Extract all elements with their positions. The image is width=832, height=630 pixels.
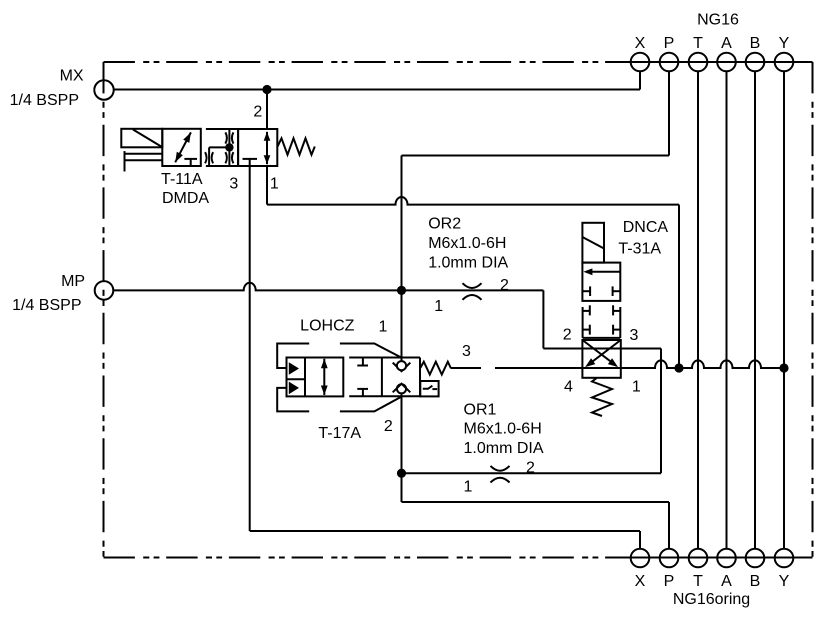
svg-text:2: 2	[563, 327, 572, 344]
wire MP to DNCA port 2	[543, 290, 582, 348]
valve LOHCZ upper poppet	[393, 361, 411, 371]
svg-text:2: 2	[526, 460, 535, 477]
port X (top)	[631, 53, 650, 72]
valve DMDA manual override	[125, 151, 163, 171]
wire DNCA port 1 to port Y line	[621, 360, 784, 368]
valve DMDA spring	[278, 138, 315, 154]
svg-text:A: A	[721, 573, 732, 590]
labels top port letters X P T A B Y	[635, 35, 790, 52]
boundary solid segment through bottom ports	[629, 557, 794, 559]
label DNCA port 3	[630, 327, 639, 344]
wire port Y vertical	[783, 71, 785, 548]
svg-text:1: 1	[632, 378, 641, 395]
wire LOHCZ port 3 to DNCA port 4	[451, 367, 583, 369]
valve DMDA position box with crossed arrow	[162, 129, 201, 166]
label OR2 port 1	[434, 298, 443, 315]
svg-text:NG16: NG16	[697, 12, 739, 29]
valve DMDA T-11A solenoid box	[121, 129, 162, 148]
svg-text:3: 3	[229, 175, 238, 192]
label DNCA	[623, 219, 669, 236]
label MX	[60, 68, 84, 85]
svg-text:NG16oring: NG16oring	[673, 591, 750, 608]
port T (bottom)	[689, 549, 708, 568]
port Y (bottom)	[775, 549, 794, 568]
port A (bottom)	[717, 549, 736, 568]
port MX	[94, 80, 113, 99]
svg-text:MP: MP	[61, 273, 85, 290]
node junction P net / MP line at OR2	[397, 286, 406, 295]
valve DNCA position box 2 blocked ports	[583, 305, 621, 338]
wire DMDA port 3 drain to bottom port X	[250, 159, 640, 549]
svg-text:B: B	[750, 573, 761, 590]
label DNCA port 1	[632, 378, 641, 395]
svg-text:M6x1.0-6H: M6x1.0-6H	[428, 235, 506, 252]
valve DMDA pilot junction dot	[225, 143, 233, 151]
wire P net OR2 to LOHCZ port 1	[401, 290, 403, 361]
wire port T vertical	[697, 71, 699, 548]
port P (bottom)	[660, 549, 679, 568]
wire MX line to port X	[114, 71, 640, 89]
wire DNCA port 3 to OR1	[402, 349, 662, 474]
label DMDA port 1	[270, 175, 279, 192]
svg-text:Y: Y	[779, 573, 790, 590]
label MP	[61, 273, 85, 290]
svg-text:DNCA: DNCA	[623, 219, 669, 236]
port T (top)	[689, 53, 708, 72]
svg-text:OR1: OR1	[464, 401, 497, 418]
label NG16oring	[673, 591, 750, 608]
port B (bottom)	[746, 549, 765, 568]
port B (top)	[746, 53, 765, 72]
node junction DMDA port 1 riser / DNCA port 1 line	[674, 363, 683, 372]
svg-text:MX: MX	[60, 68, 84, 85]
svg-text:1: 1	[379, 319, 388, 336]
label 1/4 BSPP (MP)	[12, 297, 81, 314]
port X (bottom)	[631, 549, 650, 568]
svg-text:B: B	[750, 35, 761, 52]
svg-text:T: T	[693, 573, 703, 590]
svg-text:X: X	[635, 35, 646, 52]
label DNCA port 2	[563, 327, 572, 344]
svg-text:1/4 BSPP: 1/4 BSPP	[12, 297, 81, 314]
valve LOHCZ pilot dashed enclosure bottom	[277, 388, 401, 412]
valve DMDA seat seal top pair	[225, 132, 233, 143]
node junction OR1 / LOHCZ port 2	[397, 469, 406, 478]
valve DMDA main poppet box with flow arrow	[238, 129, 277, 166]
label DMDA port 3	[229, 175, 238, 192]
label OR2 port 2	[500, 277, 509, 294]
svg-text:1: 1	[434, 298, 443, 315]
orifice OR1	[491, 466, 510, 483]
node junction MX / DMDA port 2	[262, 85, 271, 94]
boundary solid segment through top ports	[629, 61, 813, 63]
svg-text:1.0mm DIA: 1.0mm DIA	[428, 254, 508, 271]
svg-text:1/4 BSPP: 1/4 BSPP	[10, 92, 79, 109]
svg-text:1.0mm DIA: 1.0mm DIA	[464, 440, 544, 457]
svg-text:OR2: OR2	[428, 215, 461, 232]
wire DMDA port 1 to vertical riser	[267, 166, 679, 368]
wire DMDA port 2	[266, 90, 268, 130]
label 1/4 BSPP (MX)	[10, 92, 79, 109]
svg-text:M6x1.0-6H: M6x1.0-6H	[464, 420, 542, 437]
valve LOHCZ spool arrow	[321, 359, 328, 395]
port A (top)	[717, 53, 736, 72]
svg-text:T-31A: T-31A	[618, 241, 661, 258]
valve DMDA cartridge seat section	[206, 129, 277, 166]
label OR1 port 1	[464, 478, 473, 495]
valve LOHCZ pilot dashed enclosure top	[277, 344, 401, 369]
svg-text:T-11A: T-11A	[161, 171, 203, 188]
label DMDA	[162, 190, 209, 207]
port P (top)	[660, 53, 679, 72]
valve DMDA seat seal lower-left pair	[205, 152, 213, 163]
valve LOHCZ pilot boxes with triangles	[287, 358, 344, 397]
label T-17A	[318, 425, 361, 442]
wire port B vertical	[754, 71, 756, 548]
wire MP line	[113, 283, 543, 291]
manifold boundary bottom edge	[104, 557, 813, 559]
manifold boundary top edge	[104, 61, 813, 63]
svg-text:P: P	[664, 35, 675, 52]
svg-text:Y: Y	[779, 35, 790, 52]
label LOHCZ port 3	[462, 343, 471, 360]
svg-text:3: 3	[630, 327, 639, 344]
svg-text:2: 2	[500, 277, 509, 294]
valve DMDA seat seal lower-right pair	[225, 152, 233, 163]
label OR2 block	[428, 215, 508, 271]
label NG16	[697, 12, 739, 29]
svg-text:1: 1	[464, 478, 473, 495]
labels bottom port letters X P T A B Y	[635, 573, 790, 590]
wire LOHCZ port 2 to bottom port P	[402, 393, 670, 548]
svg-text:1: 1	[270, 175, 279, 192]
manifold boundary right edge	[812, 62, 814, 558]
svg-text:T: T	[693, 35, 703, 52]
valve LOHCZ seat box	[349, 358, 420, 397]
svg-text:2: 2	[253, 103, 262, 120]
wire port P to DMDA port 1 net (P supply)	[402, 71, 670, 290]
port Y (top)	[775, 53, 794, 72]
svg-text:T-17A: T-17A	[318, 425, 361, 442]
valve LOHCZ spring	[420, 362, 451, 375]
port MP	[95, 281, 114, 300]
valve DNCA position box 1 with arrow	[582, 263, 620, 301]
label DNCA port 4	[564, 378, 573, 395]
label OR1 block	[464, 401, 544, 457]
valve LOHCZ drain box	[420, 381, 438, 396]
svg-text:2: 2	[384, 418, 393, 435]
label T-11A	[161, 171, 203, 188]
svg-text:X: X	[635, 573, 646, 590]
label LOHCZ port 1	[379, 319, 388, 336]
label T-31A	[618, 241, 661, 258]
valve LOHCZ lower poppet	[393, 384, 411, 394]
svg-text:DMDA: DMDA	[162, 190, 209, 207]
label LOHCZ port 2	[384, 418, 393, 435]
node junction Y / DNCA port 1 line	[779, 363, 788, 372]
valve DNCA spring	[592, 378, 612, 416]
svg-text:LOHCZ: LOHCZ	[300, 318, 354, 335]
label LOHCZ	[300, 318, 354, 335]
wire port A vertical	[726, 71, 728, 548]
svg-text:4: 4	[564, 378, 573, 395]
label OR1 port 2	[526, 460, 535, 477]
manifold boundary left edge	[103, 62, 105, 558]
orifice OR2	[463, 283, 482, 300]
svg-text:3: 3	[462, 343, 471, 360]
svg-text:P: P	[664, 573, 675, 590]
valve DNCA position box 3 crossed arrows	[582, 340, 620, 378]
valve DNCA solenoid box	[582, 223, 604, 263]
label DMDA port 2	[253, 103, 262, 120]
svg-text:A: A	[721, 35, 732, 52]
